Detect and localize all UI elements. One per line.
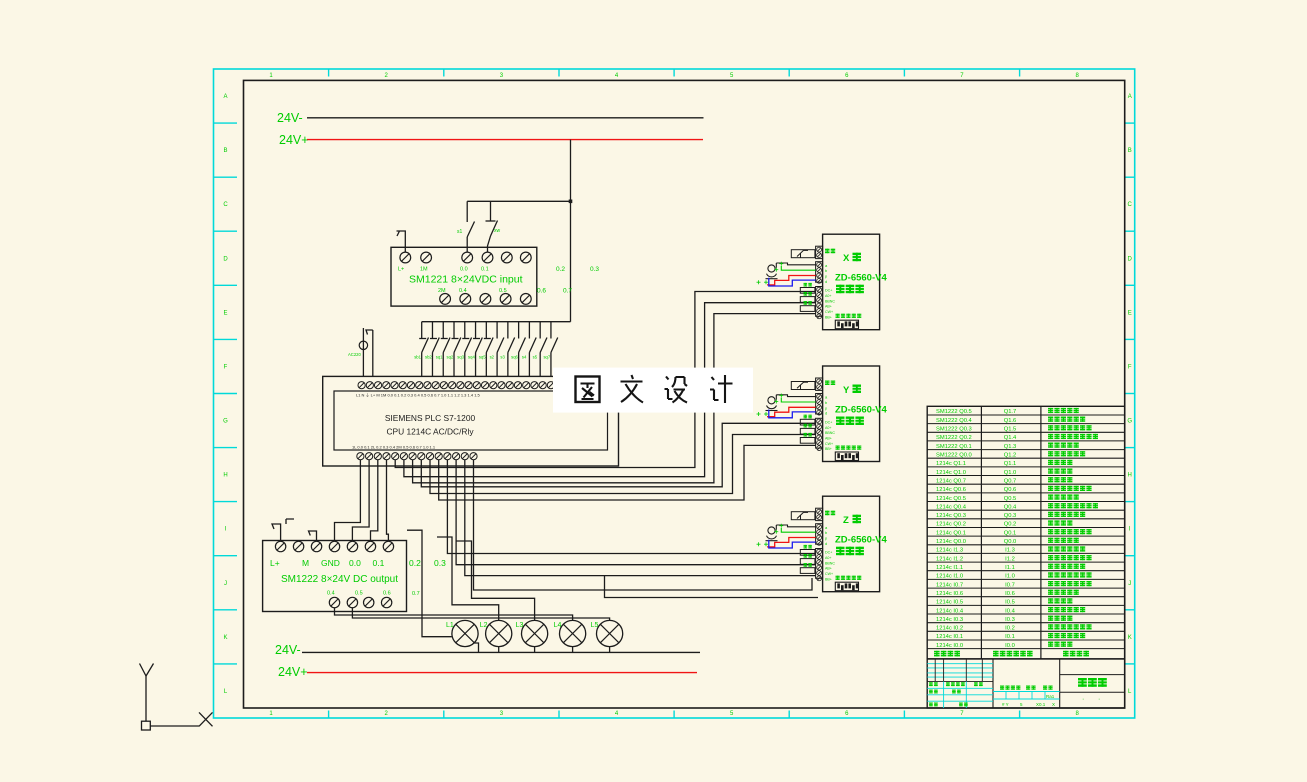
svg-text:D: D: [223, 256, 228, 262]
wire lamp L1 to 24V- rail: [474, 643, 479, 652]
svg-text:B: B: [1128, 148, 1132, 154]
SM1222 labels row2: [327, 591, 391, 597]
SM1221 terminal labels row1: [398, 267, 489, 273]
wire SM1222 to lamp L1: [407, 530, 452, 637]
svg-text:J: J: [1128, 581, 1131, 587]
green snap markers X-axis: [757, 262, 784, 285]
Z-axis enable connector: [816, 508, 823, 520]
Y-axis enable connector: [816, 378, 823, 390]
SM1222 top terminals: [275, 541, 393, 551]
watermark panel: [553, 368, 753, 413]
Z-axis enable switch box: [791, 512, 815, 520]
svg-text:D: D: [1128, 256, 1133, 262]
svg-text:0.0: 0.0: [349, 558, 361, 568]
svg-text:CPU 1214C AC/DC/Rly: CPU 1214C AC/DC/Rly: [386, 427, 474, 437]
X-axis enable connector: [816, 246, 823, 258]
svg-text:1214c I0.1: 1214c I0.1: [936, 634, 963, 640]
svg-text:CW+: CW+: [825, 310, 833, 314]
svg-text:SM1222 Q0.4: SM1222 Q0.4: [936, 418, 973, 424]
Y-axis DIP label: [836, 446, 840, 450]
svg-text:0.5: 0.5: [355, 591, 363, 597]
svg-text:DC+: DC+: [825, 289, 832, 293]
svg-text:sb2: sb2: [425, 355, 432, 360]
table row 20: 1214c I1.0: [936, 572, 1092, 579]
table row 5: SM1222 Q0.1: [936, 443, 1079, 450]
table row 16: 1214c Q0.0: [936, 538, 1079, 545]
svg-text:1214c Q1.1: 1214c Q1.1: [936, 461, 966, 467]
svg-text:E: E: [223, 310, 227, 316]
svg-text:·: ·: [1098, 696, 1100, 703]
wire SM1222 outputs to lamps L4 L5: [335, 608, 610, 621]
stepper driver X-axis box: [823, 234, 880, 330]
table row 9: 1214c Q0.7: [936, 477, 1072, 484]
border zone letters right: [1127, 94, 1132, 695]
svg-text:SIEMENS PLC S7-1200: SIEMENS PLC S7-1200: [385, 413, 476, 423]
svg-text:G: G: [1127, 419, 1132, 425]
table row 6: SM1222 Q0.0: [936, 451, 1085, 458]
blue motor wire Z-axis: [769, 540, 816, 548]
svg-text:1214c I1.1: 1214c I1.1: [936, 565, 963, 571]
svg-text:X: X: [843, 253, 850, 264]
svg-text:s5: s5: [533, 355, 538, 360]
green motor wire X-axis: [781, 266, 815, 270]
svg-text:Q1.0: Q1.0: [1004, 470, 1017, 476]
wire to lamp L3: [456, 541, 535, 620]
lamp L3: [522, 620, 548, 646]
svg-text:sq2: sq2: [447, 355, 454, 360]
svg-text:L4: L4: [554, 622, 562, 629]
UCS Y axis: [140, 664, 154, 722]
svg-text:J: J: [224, 581, 227, 587]
Z-axis axis name label: [843, 515, 861, 527]
wire 24V- top rail: [307, 117, 704, 119]
input contact sq6: [519, 322, 526, 377]
table row 3: SM1222 Q0.3: [936, 425, 1092, 432]
svg-text:BB+: BB+: [825, 447, 832, 451]
table row 24: 1214c I0.4: [936, 607, 1085, 614]
svg-text:Y: Y: [843, 385, 850, 396]
svg-text:A: A: [1128, 94, 1132, 100]
svg-text:H: H: [223, 473, 227, 479]
svg-text:0.3: 0.3: [434, 558, 446, 568]
svg-text:SM1222 Q0.5: SM1222 Q0.5: [936, 409, 972, 415]
watermark glyph SHE: [665, 377, 688, 403]
svg-text:Q0.2: Q0.2: [1004, 522, 1017, 528]
svg-text:1L 0.0 0.1 2L 0.2 0.3 0.4 2M 0: 1L 0.0 0.1 2L 0.2 0.3 0.4 2M 0.5 0.6 0.7…: [352, 445, 436, 450]
svg-text:s1: s1: [457, 229, 463, 235]
table row 2: SM1222 Q0.4: [936, 417, 1085, 424]
svg-text:1214c Q0.3: 1214c Q0.3: [936, 513, 966, 519]
title block signature rows: [927, 681, 993, 708]
wire 24V- bottom rail: [302, 651, 700, 653]
svg-text:24V-: 24V-: [277, 111, 303, 125]
svg-text:CW+: CW+: [825, 442, 833, 446]
wire 24V+ top rail (red): [307, 139, 703, 141]
svg-text:BB+: BB+: [825, 577, 832, 581]
svg-text:d: d: [825, 411, 827, 416]
title block middle header: [1000, 686, 1053, 690]
svg-text:A0+: A0+: [825, 426, 832, 430]
svg-text:A0+: A0+: [825, 556, 832, 560]
title block revision grid (cyan): [927, 664, 993, 677]
aux hook input wire: [366, 330, 373, 376]
lamp L2: [486, 620, 512, 646]
wire PLC Q to SM1222 ch0: [335, 460, 361, 542]
svg-text:F: F: [1128, 364, 1132, 370]
wire PLC Q to SM1222 ch1: [352, 460, 369, 542]
svg-text:Q0.5: Q0.5: [1004, 496, 1017, 502]
black motor wire Z-axis: [776, 525, 815, 530]
switch S2 (limit type) above input 0.1: [486, 201, 498, 252]
Y-axis signal connector: [816, 394, 823, 416]
lamp L4: [560, 620, 586, 646]
wire PLC to X-driver pin3: [413, 314, 816, 483]
svg-text:1214c I0.2: 1214c I0.2: [936, 626, 963, 632]
wire PLC to Z-driver pin2: [456, 460, 815, 565]
svg-text:I0.4: I0.4: [1005, 608, 1015, 614]
svg-text:K: K: [223, 635, 227, 641]
Z-axis power connector: [816, 549, 823, 581]
svg-text:1M: 1M: [420, 267, 428, 273]
inner black border frame: [244, 80, 1125, 708]
Y-axis DIP switch: [835, 452, 858, 461]
svg-text:SM1221 8×24VDC input: SM1221 8×24VDC input: [409, 274, 523, 286]
svg-text:I1.0: I1.0: [1005, 574, 1015, 580]
svg-text:A: A: [223, 94, 227, 100]
input module SM1221 box: [391, 247, 537, 306]
Y-axis signal pin labels: [825, 395, 828, 416]
SM1221 bottom terminals: [440, 294, 531, 305]
Z-axis driver type label: [836, 547, 845, 556]
svg-text:0.7: 0.7: [563, 288, 572, 295]
red motor wire X-axis: [767, 276, 816, 285]
Z-axis signal pin labels: [825, 525, 828, 546]
table row 13: 1214c Q0.3: [936, 512, 1085, 519]
svg-text:0.2: 0.2: [556, 266, 565, 273]
lamp L5: [597, 620, 623, 646]
label next to enable connector: [825, 381, 830, 386]
svg-text:·: ·: [1082, 696, 1084, 703]
svg-text:0.6: 0.6: [383, 591, 391, 597]
outer cyan border frame: [214, 69, 1135, 718]
X-axis signal pin labels: [825, 263, 828, 284]
input contact sq3: [462, 322, 471, 377]
wire Z-driver aux jog pair: [605, 576, 819, 598]
table row 14: 1214c Q0.2: [936, 520, 1072, 527]
input contact sq5: [484, 322, 493, 377]
blue motor wire X-axis: [769, 278, 816, 286]
svg-text:SM1222 Q0.2: SM1222 Q0.2: [936, 435, 972, 441]
svg-text:1214c I0.3: 1214c I0.3: [936, 617, 963, 623]
SM1222 bottom terminals: [329, 597, 392, 607]
svg-text:24V+: 24V+: [279, 133, 309, 147]
watermark glyph WEN: [621, 375, 644, 403]
X-axis driver type label: [836, 285, 845, 294]
table row lines: [927, 415, 1124, 649]
drawing title (wiring diagram): [1078, 678, 1087, 687]
wire PLC to Z-driver pin3: [465, 460, 816, 576]
table row 25: 1214c I0.3: [936, 616, 1072, 623]
svg-text:GND: GND: [321, 558, 340, 568]
svg-text:C: C: [223, 202, 228, 208]
svg-text:L1: L1: [446, 622, 454, 629]
svg-text:AB+: AB+: [825, 436, 832, 440]
PLC top terminal strip: [358, 382, 554, 389]
svg-text:Q1.6: Q1.6: [1004, 418, 1017, 424]
svg-text:Q0.6: Q0.6: [1004, 487, 1017, 493]
table row 12: 1214c Q0.4: [936, 503, 1098, 510]
title block outer: [927, 659, 1124, 708]
svg-text:sq5: sq5: [479, 355, 486, 360]
black motor wire X-axis: [776, 263, 815, 268]
border zone numbers top: [269, 73, 1079, 79]
svg-text:SM1222 Q0.0: SM1222 Q0.0: [936, 452, 972, 458]
svg-text:DC+: DC+: [825, 420, 832, 424]
wire from 24V+ rail down to input bus: [570, 140, 572, 322]
svg-text:L+: L+: [398, 267, 404, 273]
svg-text:L1 N ⏚ L+ M 1M 0.0 0.1 0.2 0.3: L1 N ⏚ L+ M 1M 0.0 0.1 0.2 0.3 0.4 0.5 0…: [356, 392, 481, 398]
title block right cells: [1060, 675, 1125, 693]
border zone numbers bottom: [269, 711, 1079, 717]
Y-axis power connector: [816, 418, 823, 450]
svg-text:I0.7: I0.7: [1005, 582, 1015, 588]
watermark glyph JI: [710, 375, 733, 403]
input contact s5: [540, 322, 547, 377]
green motor wire Y-axis: [781, 398, 815, 402]
PE hook on SM1222 L+: [272, 519, 294, 542]
UCS icon origin square: [142, 721, 151, 730]
svg-text:1214c Q0.6: 1214c Q0.6: [936, 487, 966, 493]
svg-text:1214c I1.0: 1214c I1.0: [936, 574, 963, 580]
input contact s2: [497, 322, 504, 377]
Z-axis shunt resistors: [800, 545, 815, 574]
svg-text:0.3: 0.3: [590, 266, 599, 273]
input contact sq1: [441, 322, 450, 377]
table row 15: 1214c Q0.1: [936, 529, 1092, 536]
svg-text:1214c Q0.2: 1214c Q0.2: [936, 522, 966, 528]
svg-text:ZD-6560-V4: ZD-6560-V4: [835, 405, 887, 416]
svg-text:0.6: 0.6: [537, 288, 546, 295]
svg-text:SM1222 Q0.1: SM1222 Q0.1: [936, 444, 972, 450]
table row 26: 1214c I0.2: [936, 624, 1092, 631]
border zone ticks top: [329, 69, 1020, 77]
svg-text:Q1.1: Q1.1: [1004, 461, 1017, 467]
svg-text:X0.1: X0.1: [1036, 702, 1046, 707]
Z-axis DIP label: [836, 576, 840, 580]
input contact sb2: [430, 322, 439, 377]
wire lamp L2 to 24V- rail: [498, 647, 500, 653]
svg-text:1214c I0.4: 1214c I0.4: [936, 608, 964, 614]
svg-text:I0.2: I0.2: [1005, 626, 1015, 632]
hook above GND: [309, 531, 317, 542]
table row 22: 1214c I0.6: [936, 590, 1079, 597]
SM1221 top terminals: [400, 252, 531, 263]
svg-text:sq6: sq6: [511, 355, 518, 360]
wire PLC to Z-driver aux 1: [474, 460, 813, 590]
svg-text:BBNC: BBNC: [825, 431, 835, 435]
wire PLC to Y-driver pin2: [430, 435, 816, 494]
wire PLC Q to SM1222 ch3: [387, 460, 389, 542]
table row 4: SM1222 Q0.2: [936, 434, 1098, 441]
X-axis power pin labels: [825, 289, 835, 320]
svg-text:I0.3: I0.3: [1005, 617, 1015, 623]
red motor wire Y-axis: [767, 407, 816, 416]
svg-text:1214c Q0.5: 1214c Q0.5: [936, 496, 966, 502]
border zone letters left: [223, 94, 228, 695]
red motor wire Z-axis: [767, 538, 816, 547]
svg-text:L+: L+: [270, 558, 280, 568]
svg-text:0.0: 0.0: [460, 267, 468, 273]
svg-text:0.2: 0.2: [409, 558, 421, 568]
black motor wire Y-axis: [776, 395, 815, 400]
input contact sb1: [419, 322, 428, 377]
svg-text:X: X: [1052, 702, 1055, 707]
Y-axis enable switch box: [791, 382, 815, 390]
svg-text:M: M: [302, 558, 309, 568]
svg-text:I1.3: I1.3: [1005, 548, 1015, 554]
table row 7: 1214c Q1.1: [936, 460, 1072, 467]
Z-axis signal connector: [816, 524, 823, 546]
svg-text:1214c Q0.0: 1214c Q0.0: [936, 539, 966, 545]
svg-text:I0.1: I0.1: [1005, 634, 1015, 640]
watermark glyph TU: [576, 377, 600, 403]
svg-text:24V+: 24V+: [278, 665, 308, 679]
svg-text:1214c Q0.4: 1214c Q0.4: [936, 504, 967, 510]
svg-text:G: G: [223, 419, 228, 425]
title block main verticals: [993, 659, 1060, 708]
switch S1 above input 0.0: [467, 201, 474, 252]
table column line 2: [1040, 406, 1042, 659]
green snap markers Y-axis: [757, 394, 784, 417]
green motor wire Z-axis: [781, 528, 815, 532]
svg-text:0.4: 0.4: [327, 591, 335, 597]
X-axis shunt resistors: [800, 283, 815, 312]
Z-axis power pin labels: [825, 551, 835, 582]
wire PLC Q to SM1222 ch2: [371, 460, 378, 542]
svg-text:1214c I1.2: 1214c I1.2: [936, 556, 963, 562]
svg-text:Q0.1: Q0.1: [1004, 530, 1017, 536]
svg-text:ZD-6560-V4: ZD-6560-V4: [835, 273, 887, 284]
svg-text:0.1: 0.1: [481, 267, 489, 273]
svg-text:AC220: AC220: [348, 352, 361, 357]
wire PLC to Y-driver pin1: [421, 423, 815, 487]
wire PLC to X-driver pin2: [404, 303, 816, 477]
X-axis power connector: [816, 287, 823, 319]
svg-text:sq1: sq1: [436, 355, 443, 360]
Y-axis shunt resistors: [800, 415, 815, 444]
svg-text:Q1.4: Q1.4: [1004, 435, 1017, 441]
svg-text:s2: s2: [490, 355, 495, 360]
svg-text:Z: Z: [843, 515, 849, 526]
X-axis signal connector: [816, 262, 823, 284]
SM1222 labels row1: [270, 558, 385, 568]
svg-text:CW+: CW+: [825, 572, 833, 576]
table row 1: SM1222 Q0.5: [936, 408, 1079, 415]
svg-text:xw: xw: [494, 228, 501, 234]
svg-text:BBNC: BBNC: [825, 561, 835, 565]
svg-text:L2: L2: [480, 622, 488, 629]
wire PLC to X-driver pin1: [395, 292, 815, 468]
label next to enable connector: [825, 511, 830, 516]
svg-text:I0.6: I0.6: [1005, 591, 1015, 597]
table row 21: 1214c I0.7: [936, 581, 1092, 588]
revision grid verticals: [927, 659, 993, 682]
svg-text:1214c Q0.7: 1214c Q0.7: [936, 478, 966, 484]
svg-text:F: F: [224, 364, 228, 370]
svg-text:BBNC: BBNC: [825, 299, 835, 303]
svg-text:AB+: AB+: [825, 567, 832, 571]
X-axis axis name label: [843, 253, 861, 265]
svg-text:I1.1: I1.1: [1005, 565, 1015, 571]
title block middle texts: [1002, 694, 1055, 707]
svg-text:1214c I0.0: 1214c I0.0: [936, 643, 963, 649]
svg-text:A0+: A0+: [825, 294, 832, 298]
svg-text:E: E: [1128, 310, 1132, 316]
svg-text:Ra1: Ra1: [1046, 694, 1055, 699]
table column line 1: [980, 406, 982, 659]
wire lamp L3 to 24V- rail: [534, 647, 536, 653]
svg-text:1214c Q0.1: 1214c Q0.1: [936, 530, 966, 536]
wire PLC to Z-driver pin1: [447, 460, 815, 554]
PE ground hook on SM1221: [397, 231, 406, 252]
stepper driver Z-axis box: [823, 496, 880, 592]
svg-text:L5: L5: [591, 622, 599, 629]
UCS X axis: [150, 712, 212, 726]
Y-axis driver type label: [836, 417, 845, 426]
wire 24V+ bottom rail (red): [307, 672, 697, 674]
PLC SIEMENS S7-1200 outer box: [323, 376, 619, 466]
svg-text:Q1.5: Q1.5: [1004, 427, 1017, 433]
table row 17: 1214c I1.3: [936, 546, 1085, 553]
output module SM1222 box: [263, 541, 407, 612]
svg-text:I0.5: I0.5: [1005, 600, 1015, 606]
svg-text:I1.2: I1.2: [1005, 556, 1015, 562]
svg-text:C: C: [1128, 202, 1133, 208]
table row 27: 1214c I0.1: [936, 633, 1085, 640]
svg-text:Q1.7: Q1.7: [1004, 409, 1017, 415]
input contact sq4: [473, 322, 482, 377]
table row 19: 1214c I1.1: [936, 564, 1085, 571]
motor M for Z-axis: [766, 527, 778, 541]
green snap markers Z-axis: [757, 524, 784, 547]
input contact s3: [508, 322, 515, 377]
svg-text:AB+: AB+: [825, 305, 832, 309]
table row 8: 1214c Q1.0: [936, 468, 1072, 475]
svg-text:1214c I0.7: 1214c I0.7: [936, 582, 963, 588]
wire lamp L5 to 24V- rail: [609, 647, 611, 653]
Y-axis power pin labels: [825, 420, 835, 451]
label next to enable connector: [825, 249, 830, 254]
svg-text:DC+: DC+: [825, 551, 832, 555]
input contact sq7: [551, 322, 558, 377]
svg-text:1214c I0.6: 1214c I0.6: [936, 591, 963, 597]
svg-text:0.1: 0.1: [373, 558, 385, 568]
svg-text:Q0.4: Q0.4: [1004, 504, 1017, 510]
svg-text:# Y: # Y: [1002, 702, 1009, 707]
wire bus to input switches: [467, 200, 570, 202]
svg-text:s4: s4: [522, 355, 527, 360]
X-axis enable switch box: [791, 250, 815, 258]
wire to lamp L2: [437, 537, 499, 620]
table header row: port / PLC address / function: [934, 651, 1089, 657]
motor M for X-axis: [766, 265, 778, 279]
stepper driver Y-axis box: [823, 366, 880, 462]
border zone ticks left: [214, 123, 238, 664]
input contact sq2: [452, 322, 461, 377]
svg-text:24V-: 24V-: [275, 643, 301, 657]
svg-text:0.7: 0.7: [412, 591, 420, 597]
Y-axis axis name label: [843, 385, 861, 397]
